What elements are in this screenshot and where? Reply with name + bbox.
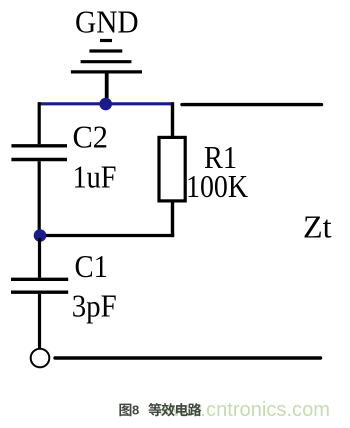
wire: top rail continuation (right port top lead) [182, 103, 322, 106]
svg-text:100K: 100K [186, 168, 248, 204]
node A (junction GND / C2 / R1) [99, 98, 112, 111]
capacitor C1 [11, 279, 68, 292]
open terminal circle [31, 349, 50, 368]
svg-text:C1: C1 [75, 248, 109, 284]
wire: node B down to C1 [38, 238, 41, 278]
node B (junction C2 / R1 / C1) [34, 229, 47, 242]
caption char 电 [176, 403, 188, 416]
wire: blue top rail [38, 102, 173, 105]
capacitor C2 [11, 146, 67, 160]
ground symbol [71, 41, 142, 101]
wire: bottom port lead [55, 356, 321, 359]
wire: left vertical down to C2 [38, 102, 41, 144]
wire: C2 bottom to node B [38, 161, 41, 232]
caption char 图 [119, 404, 131, 417]
resistor R1 body [159, 137, 185, 201]
svg-text:www.cntronics.com: www.cntronics.com [157, 399, 330, 421]
svg-text:GND: GND [75, 3, 139, 39]
wire: C1 bottom to terminal [38, 294, 41, 348]
caption char 路 [188, 403, 201, 416]
svg-text:3pF: 3pF [72, 288, 117, 324]
svg-text:8: 8 [132, 403, 139, 418]
svg-text:C2: C2 [73, 119, 109, 155]
wire: bottom of loop back to node B [39, 234, 174, 237]
caption char 等 [148, 403, 161, 416]
svg-text:1uF: 1uF [73, 159, 117, 195]
svg-text:Zt: Zt [303, 209, 332, 245]
wire: R1 bottom to loop corner [171, 201, 174, 237]
wire: right vertical from blue rail to R1 [171, 102, 174, 137]
caption char 效 [161, 403, 174, 416]
